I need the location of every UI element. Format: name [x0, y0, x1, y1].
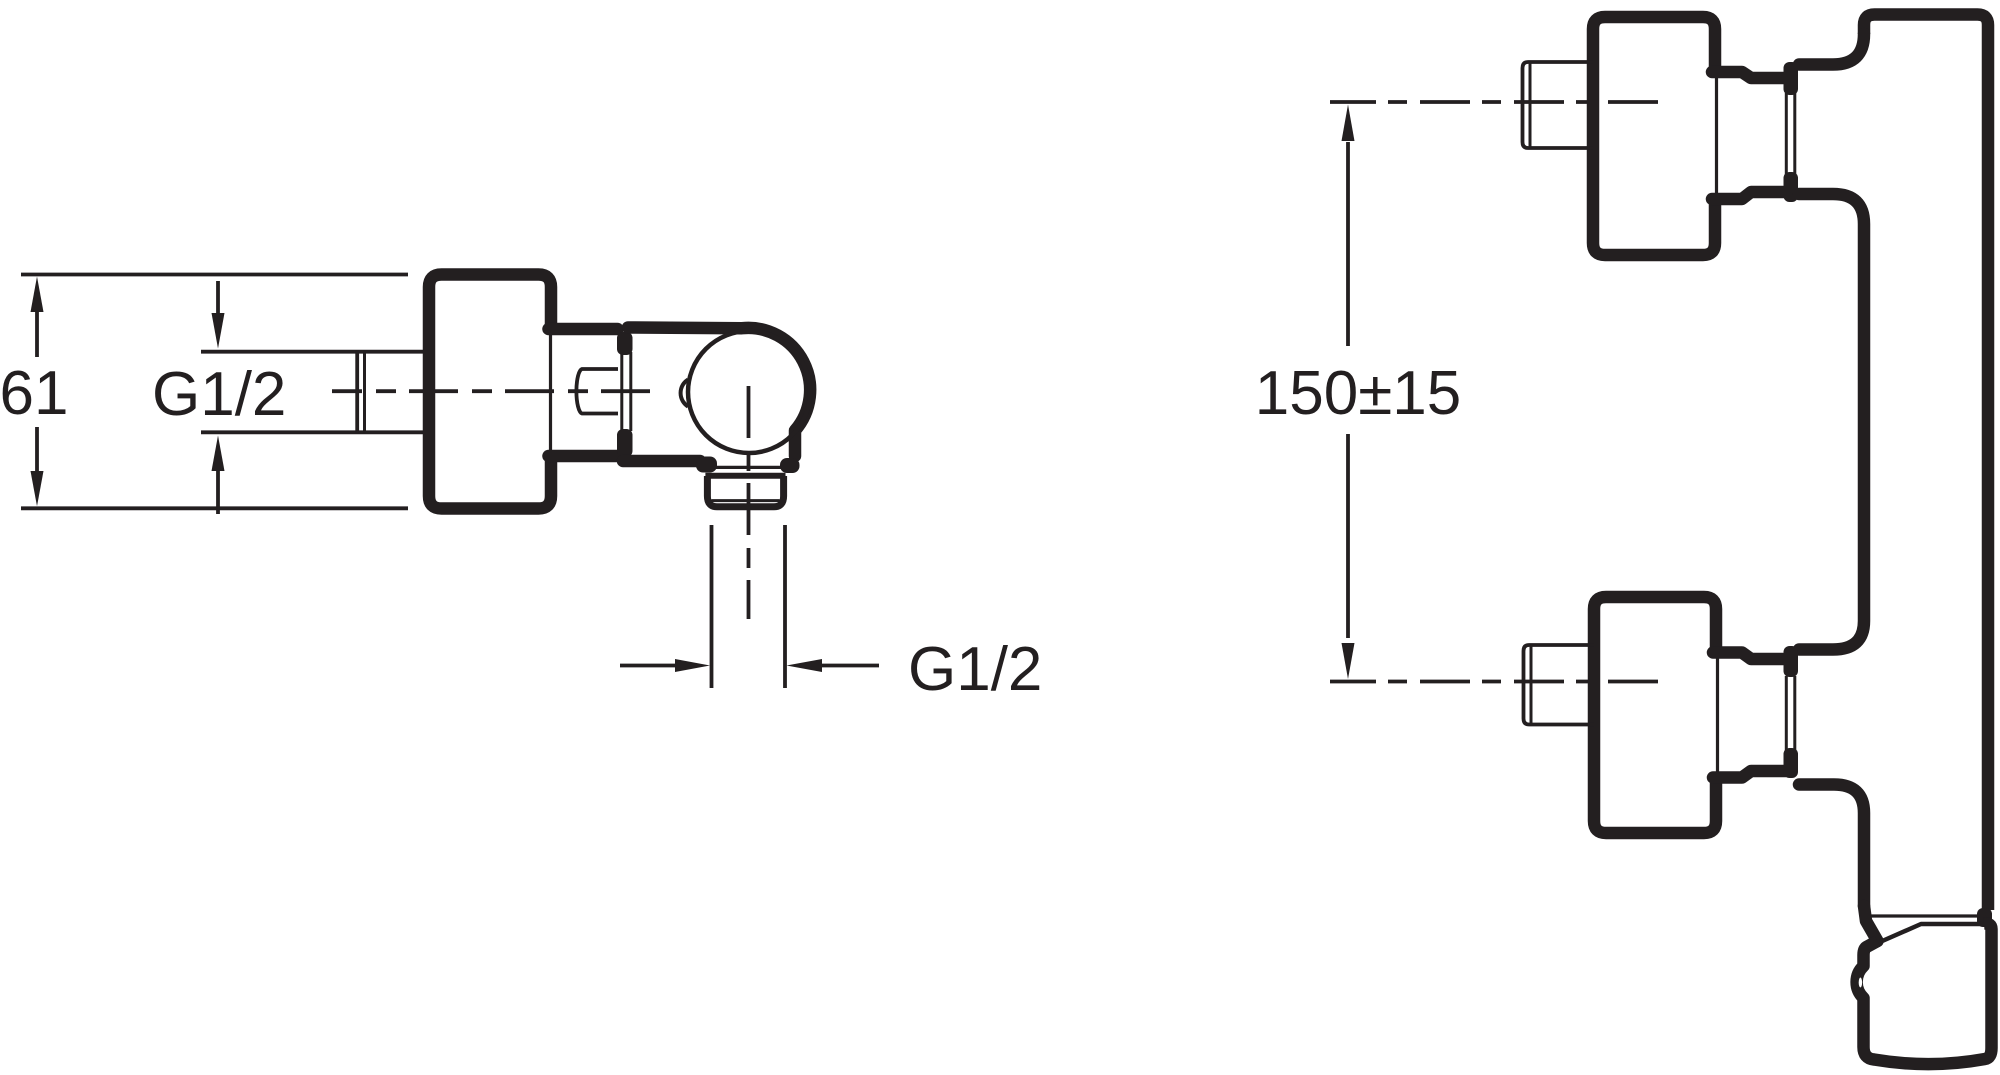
- dimension 150±15: lower line: [1346, 434, 1350, 638]
- bottom handle knob: [1594, 597, 1716, 833]
- inlet nipple left edge (side view): [355, 352, 359, 433]
- G1/2 inlet: lower arrow line: [216, 470, 220, 514]
- dimension 61: dimension line upper segment: [35, 311, 39, 357]
- dimension 150±15: upper line: [1346, 142, 1350, 346]
- spout joint line: [1871, 914, 1981, 917]
- top handle knob: [1593, 17, 1715, 255]
- dimension 61: extension line top: [21, 273, 408, 277]
- spout joint blob right: [1977, 908, 1992, 927]
- bottom joint double line: [1786, 676, 1795, 756]
- svg-text:G1/2: G1/2: [152, 360, 286, 429]
- spout joint left corner: [1864, 906, 1878, 941]
- top handle neck top edge: [1712, 72, 1786, 78]
- outlet dimension extension line left: [710, 525, 714, 688]
- outlet flange blob right: [780, 458, 800, 473]
- bottom handle neck top edge: [1713, 653, 1786, 660]
- ball / outlet vertical centerline: [747, 386, 751, 619]
- ball socket edge arc: [681, 380, 688, 407]
- bottom joint blob lower: [1784, 748, 1799, 778]
- outlet thread outline: [707, 476, 783, 507]
- svg-text:G1/2: G1/2: [908, 635, 1042, 704]
- cartridge end cap (inside stem): [576, 369, 618, 414]
- body port top edge (upper port): [1799, 34, 1864, 65]
- top knob face line: [1715, 74, 1718, 196]
- top joint blob lower: [1784, 172, 1799, 202]
- outlet dimension line right: [821, 664, 879, 668]
- G1/2 inlet: extension/outline line top: [201, 350, 429, 354]
- outlet thread top bar: [705, 473, 785, 479]
- union joint double line: [622, 352, 631, 431]
- outlet dimension line left: [620, 664, 676, 668]
- svg-text:150±15: 150±15: [1255, 359, 1461, 428]
- mixer body bottom edge: [623, 455, 700, 468]
- body left edge between ports: [1799, 194, 1864, 650]
- outlet dimension extension line right: [783, 525, 787, 688]
- dimension 150±15: arrowhead up: [1342, 105, 1355, 142]
- top handle nipple: [1523, 62, 1594, 148]
- G1/2 inlet: arrowhead down: [212, 313, 225, 349]
- top joint blob upper: [1784, 62, 1799, 95]
- flange face line: [549, 332, 552, 451]
- G1/2 inlet: arrowhead up: [212, 436, 225, 472]
- valve stem bottom edge: [549, 450, 618, 463]
- mixer body top outline with arc over ball: [628, 328, 810, 457]
- spout body outline: [1857, 923, 1992, 1064]
- valve stem top edge: [549, 323, 618, 336]
- spout bump inner sliver: [1859, 978, 1862, 988]
- bottom handle nipple: [1524, 645, 1595, 725]
- dimension 61: arrowhead up: [31, 277, 44, 313]
- outlet thread relief line: [711, 499, 779, 502]
- bottom handle neck bottom edge: [1713, 771, 1786, 778]
- bottom handle centerline: [1330, 680, 1658, 684]
- top handle neck bottom edge: [1712, 192, 1786, 199]
- top joint double line: [1786, 93, 1795, 180]
- ball joint circle: [688, 331, 810, 453]
- outlet flange blob left: [696, 457, 717, 473]
- inlet nipple thread relief line: [363, 352, 366, 433]
- spout shoulder line: [1880, 924, 1981, 942]
- top handle centerline: [1330, 100, 1658, 104]
- svg-text:61: 61: [0, 359, 68, 428]
- outlet dimension arrowhead left-pointing: [787, 659, 823, 672]
- top nipple thread relief line: [1529, 62, 1532, 148]
- dimension 61: extension line bottom: [21, 506, 408, 510]
- wall flange (escutcheon, side view): [429, 275, 551, 509]
- centerline: horizontal axis of inlet (side view): [332, 389, 650, 393]
- union joint blob top: [617, 332, 633, 355]
- dimension 61: dimension line lower segment: [35, 427, 39, 472]
- bottom nipple thread relief line: [1530, 645, 1533, 725]
- body left edge below bottom port: [1799, 785, 1864, 907]
- outlet flange line: [716, 466, 781, 469]
- bottom joint blob upper: [1784, 646, 1799, 677]
- G1/2 inlet: extension/outline line bottom: [201, 430, 429, 434]
- G1/2 inlet: upper arrow line: [216, 281, 220, 313]
- dimension 61: arrowhead down: [31, 471, 44, 506]
- outlet dimension arrowhead right-pointing: [675, 659, 710, 672]
- dimension 150±15: arrowhead down: [1342, 643, 1355, 679]
- union joint blob bottom: [617, 429, 633, 457]
- body main outline (top edge, right edge): [1864, 15, 1988, 911]
- bottom knob face line: [1716, 656, 1719, 774]
